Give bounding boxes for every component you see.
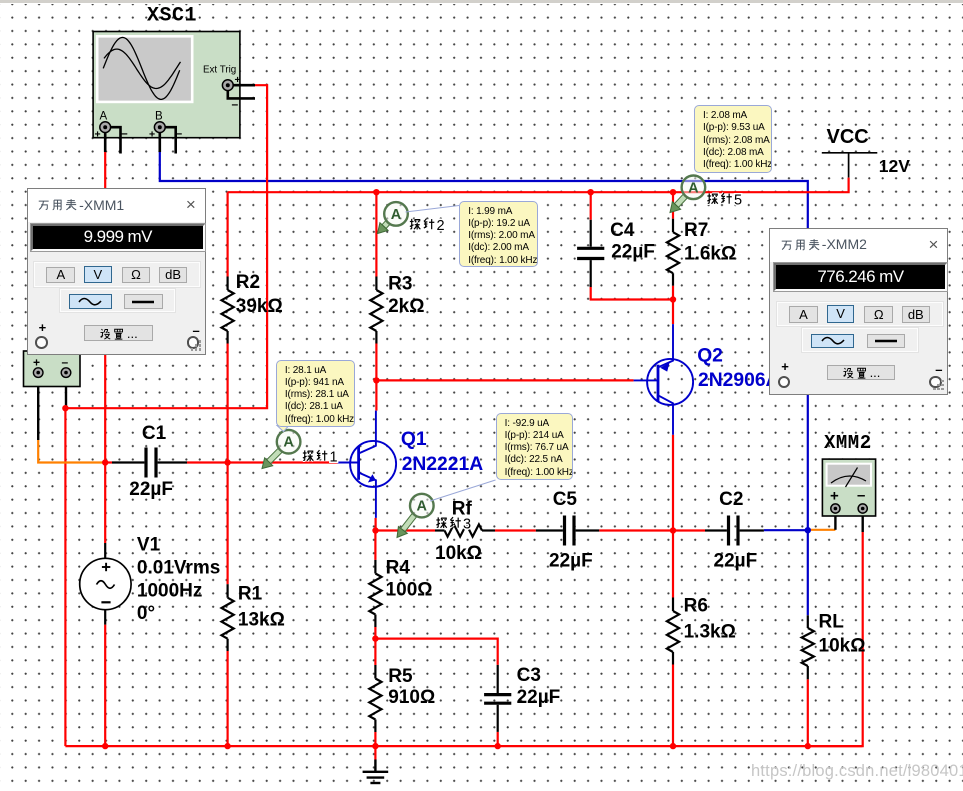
svg-text:R2: R2: [236, 272, 260, 293]
svg-text:R3: R3: [388, 273, 412, 294]
svg-text:+: +: [830, 488, 839, 505]
junction at 375.4,746.1: [372, 743, 378, 749]
resistor R2: [222, 277, 234, 344]
svg-text:1.3kΩ: 1.3kΩ: [684, 622, 736, 643]
svg-text:10kΩ: 10kΩ: [819, 636, 866, 657]
resistor R4: [369, 560, 381, 627]
svg-text:V1: V1: [137, 535, 161, 556]
svg-text:R5: R5: [388, 666, 413, 687]
svg-text:10kΩ: 10kΩ: [435, 543, 482, 564]
svg-text:Ext Trig: Ext Trig: [203, 65, 236, 76]
svg-text:2N2221A: 2N2221A: [402, 454, 484, 475]
svg-text:C3: C3: [517, 665, 541, 686]
wire C5 to node O1: [599, 529, 673, 531]
svg-text:2N2906A: 2N2906A: [698, 370, 780, 391]
svg-text:C1: C1: [142, 423, 167, 444]
XSC1 terminal B: [149, 122, 183, 141]
junction at 590.7,192.2: [588, 189, 594, 195]
wire R1 top: [227, 463, 229, 585]
wire RL bottom to ground rail: [807, 679, 809, 746]
XSC1 pin B minus stub: [166, 127, 176, 153]
wire R2 bottom to input node: [227, 344, 229, 463]
current probe 探针3: [397, 494, 434, 538]
label C4 value: [611, 241, 655, 262]
resistor R1: [222, 584, 234, 651]
svg-text:22µF: 22µF: [611, 241, 655, 262]
svg-text:1.6kΩ: 1.6kΩ: [684, 244, 736, 265]
wire node E1 down to R4: [374, 531, 376, 560]
junction at 375.4,638.6: [372, 635, 378, 641]
wire C4 bottom to node P: [591, 287, 673, 300]
toolbar sliver at top: [0, 0, 963, 4]
XSC1 terminal A: [95, 122, 129, 141]
wire C1 to base node: [187, 461, 228, 463]
svg-text:–: –: [62, 355, 69, 369]
svg-text:R1: R1: [238, 584, 263, 605]
resistor R3: [370, 277, 382, 344]
AC source V1: [80, 543, 131, 625]
svg-text:12V: 12V: [879, 156, 910, 176]
junction at 375.5,530.5: [372, 527, 378, 533]
wire Q1 emitter to node E1: [375, 518, 377, 531]
leader line probe3: [430, 480, 496, 501]
label C3 value: [517, 687, 561, 708]
label Q1: [401, 429, 427, 450]
wire node E2 to C3: [375, 639, 497, 665]
label 探针2: [410, 218, 445, 234]
label V1: [137, 535, 161, 556]
current probe 探针1: [262, 430, 300, 469]
label R5 value: [388, 687, 435, 708]
label R6 value: [684, 622, 736, 643]
wire node P to Q2 emitter: [672, 300, 674, 325]
svg-text:39kΩ: 39kΩ: [236, 296, 283, 317]
multimeter XMM2 icon: [822, 459, 875, 516]
capacitor C1: [112, 448, 187, 478]
capacitor C4: [577, 220, 604, 287]
multimeter dialog XMM1: [27, 188, 206, 355]
svg-text:R7: R7: [684, 220, 708, 241]
junction at 673,530.5: [670, 527, 676, 533]
multimeter XMM1 icon: [24, 351, 81, 387]
label C2: [719, 489, 743, 510]
wire node E2 to R5: [374, 639, 376, 665]
wire V1 bottom to ground rail: [104, 625, 106, 747]
label R4 value: [386, 580, 433, 601]
watermark: [751, 762, 963, 781]
wire R6 to ground rail: [672, 665, 674, 747]
label R3: [388, 273, 412, 294]
multimeter dialog XMM2: [769, 228, 948, 395]
junction at 105.2,746.1: [102, 743, 108, 749]
tooltip probe1 tail: [270, 424, 300, 436]
label R6: [684, 596, 708, 617]
junction at 227.6,462.5: [224, 459, 230, 465]
wire C4 top: [590, 192, 592, 220]
svg-text:22µF: 22µF: [129, 479, 173, 500]
wire scope B to output (blue): [160, 152, 808, 530]
wire VCC rail: [228, 178, 849, 193]
XMM2 pin minus stub: [862, 513, 864, 532]
wire V1 top: [104, 463, 106, 544]
junction at 227.6,746.1: [224, 743, 230, 749]
label C3: [517, 665, 541, 686]
transistor Q1 (NPN 2N2221A): [338, 411, 397, 518]
wire Ext Trig to ground net: [65, 85, 267, 746]
svg-text:0°: 0°: [137, 603, 155, 624]
svg-text:C5: C5: [553, 489, 578, 510]
wire node B2 to Q2 base: [376, 379, 633, 381]
wire R7 top: [672, 192, 674, 219]
capacitor C3: [484, 665, 511, 732]
svg-text:A: A: [283, 435, 294, 451]
svg-text:C2: C2: [719, 489, 743, 510]
XSC1 pin Ext minus stub: [228, 91, 255, 99]
capacitor C5: [536, 516, 599, 546]
measurement tooltip probe5: [694, 105, 772, 173]
XMM1 pin minus stub: [65, 378, 67, 409]
junction at 376.4,192.2: [373, 189, 379, 195]
XSC1 pin Ext plus stub: [234, 84, 256, 87]
wire R7 bottom to node P: [672, 286, 674, 300]
ground: [363, 746, 389, 783]
wire scope A to input node: [104, 152, 106, 463]
wire R3 bottom to node B2: [375, 344, 377, 381]
XSC1 terminal Ext Trig: [222, 74, 240, 111]
current probe 探针2: [378, 202, 408, 233]
label R2 value: [236, 296, 283, 317]
wire R5 to ground rail: [374, 732, 376, 746]
svg-text:A: A: [391, 207, 402, 223]
label RL: [819, 611, 845, 632]
svg-text:VCC: VCC: [827, 126, 869, 148]
wire R4 to node E2: [374, 627, 376, 639]
wire node E1 to Rf: [376, 529, 435, 531]
junction output node (blue): [805, 527, 811, 533]
svg-text:22µF: 22µF: [517, 687, 561, 708]
wire input node to C1: [105, 461, 112, 463]
label R5: [388, 666, 413, 687]
ground rail: [65, 745, 862, 747]
svg-text:XSC1: XSC1: [147, 5, 197, 28]
svg-text:R4: R4: [386, 557, 411, 578]
wire C3 to ground rail: [497, 732, 499, 746]
wire XMM1 plus (orange): [38, 440, 105, 463]
label C5: [553, 489, 578, 510]
svg-text:3: 3: [463, 517, 471, 533]
svg-text:B: B: [155, 111, 163, 123]
svg-text:RL: RL: [819, 611, 845, 632]
svg-text:Q2: Q2: [697, 346, 723, 367]
svg-text:2: 2: [437, 218, 445, 234]
label C5 value: [549, 551, 593, 572]
svg-text:R6: R6: [684, 596, 708, 617]
label Q1 value: [402, 454, 484, 475]
svg-text:0.01Vrms: 0.01Vrms: [137, 558, 220, 579]
label XMM2: [824, 432, 872, 454]
resistor R6: [667, 598, 679, 665]
wire XMM2 minus to ground rail: [808, 532, 863, 746]
svg-text:1000Hz: 1000Hz: [137, 580, 203, 601]
svg-text:13kΩ: 13kΩ: [238, 610, 285, 631]
junction at 376.4,380.4: [373, 377, 379, 383]
wire R1 bottom to ground rail: [227, 651, 229, 746]
label R4: [386, 557, 411, 578]
label R1 value: [238, 610, 285, 631]
wire node O1 down to R6: [672, 531, 674, 598]
label 探针1: [303, 450, 338, 466]
XMM1 pin plus stub: [37, 378, 39, 440]
junction at 673,192.2: [670, 189, 676, 195]
svg-text:–: –: [857, 487, 865, 504]
resistor RL: [802, 615, 814, 679]
measurement tooltip probe2: [459, 201, 538, 267]
junction at 65.4,408.2: [62, 405, 68, 411]
svg-text:A: A: [688, 180, 699, 196]
resistor R5: [369, 665, 381, 732]
svg-text:2kΩ: 2kΩ: [388, 296, 424, 317]
wire R3 top: [375, 192, 377, 276]
label VCC: [827, 126, 869, 148]
label 探针5: [707, 193, 742, 209]
svg-text:A: A: [417, 499, 428, 515]
junction at 105.2,462.5: [102, 459, 108, 465]
XSC1 pin B plus stub: [159, 133, 162, 152]
junction at 673,746.1: [670, 743, 676, 749]
leader line probe2: [406, 206, 460, 213]
svg-text:1: 1: [330, 450, 338, 466]
svg-text:+: +: [149, 129, 155, 141]
label R2: [236, 272, 260, 293]
resistor R7: [667, 219, 679, 286]
measurement tooltip probe3: [496, 413, 574, 481]
measurement tooltip probe1: [276, 360, 356, 427]
svg-text:–: –: [121, 126, 128, 140]
current probe 探针5: [670, 176, 705, 213]
VCC power symbol: [822, 153, 878, 178]
label R1: [238, 584, 263, 605]
svg-text:C4: C4: [610, 220, 635, 241]
label R7 value: [684, 244, 736, 265]
label R3 value: [388, 296, 424, 317]
wire C2 to output node (blue): [764, 529, 808, 531]
wire Q2 collector to node O1: [672, 435, 674, 531]
label Rf: [452, 498, 473, 519]
label C4: [610, 220, 635, 241]
svg-text:Q1: Q1: [401, 429, 427, 450]
capacitor C2: [705, 516, 764, 546]
wire Rf to C5: [495, 529, 536, 531]
label C1: [142, 423, 167, 444]
svg-text:XMM2: XMM2: [824, 432, 872, 454]
wire XMM2 plus (orange): [809, 529, 835, 531]
XSC1 pin A plus stub: [104, 133, 107, 152]
svg-text:22µF: 22µF: [549, 551, 593, 572]
svg-text:100Ω: 100Ω: [386, 580, 433, 601]
label Rf value: [435, 543, 482, 564]
label C2 value: [714, 551, 758, 572]
XSC1 pin A minus stub: [110, 127, 121, 153]
label V1 value: [137, 558, 220, 625]
svg-text:5: 5: [734, 193, 742, 209]
wire node B2 down to Q1 collector: [375, 380, 377, 410]
resistor Rf: [435, 524, 495, 536]
wire node O1 to C2: [673, 529, 705, 531]
label Q2: [697, 346, 723, 367]
XMM2 pin plus stub: [834, 513, 836, 530]
wire output node down to RL: [807, 530, 809, 615]
junction at 673,299.5: [670, 296, 676, 302]
oscilloscope XSC1: [93, 32, 240, 138]
junction at 497.7,746.1: [495, 743, 501, 749]
svg-text:910Ω: 910Ω: [388, 687, 435, 708]
svg-text:22µF: 22µF: [714, 551, 758, 572]
label R7: [684, 220, 708, 241]
svg-text:+: +: [95, 129, 101, 141]
label Q2 value: [698, 370, 780, 391]
label C1 value: [129, 479, 173, 500]
svg-text:A: A: [100, 111, 108, 123]
label RL value: [819, 636, 866, 657]
wire VCC rail down to R2: [227, 192, 229, 276]
junction at 807.8,746.1: [805, 743, 811, 749]
label 12V: [879, 156, 910, 176]
label 探针3: [436, 517, 471, 533]
label XSC1: [147, 5, 197, 28]
transistor Q2 (PNP 2N2906A): [634, 324, 694, 435]
wire base node to Q1 base: [228, 461, 338, 463]
